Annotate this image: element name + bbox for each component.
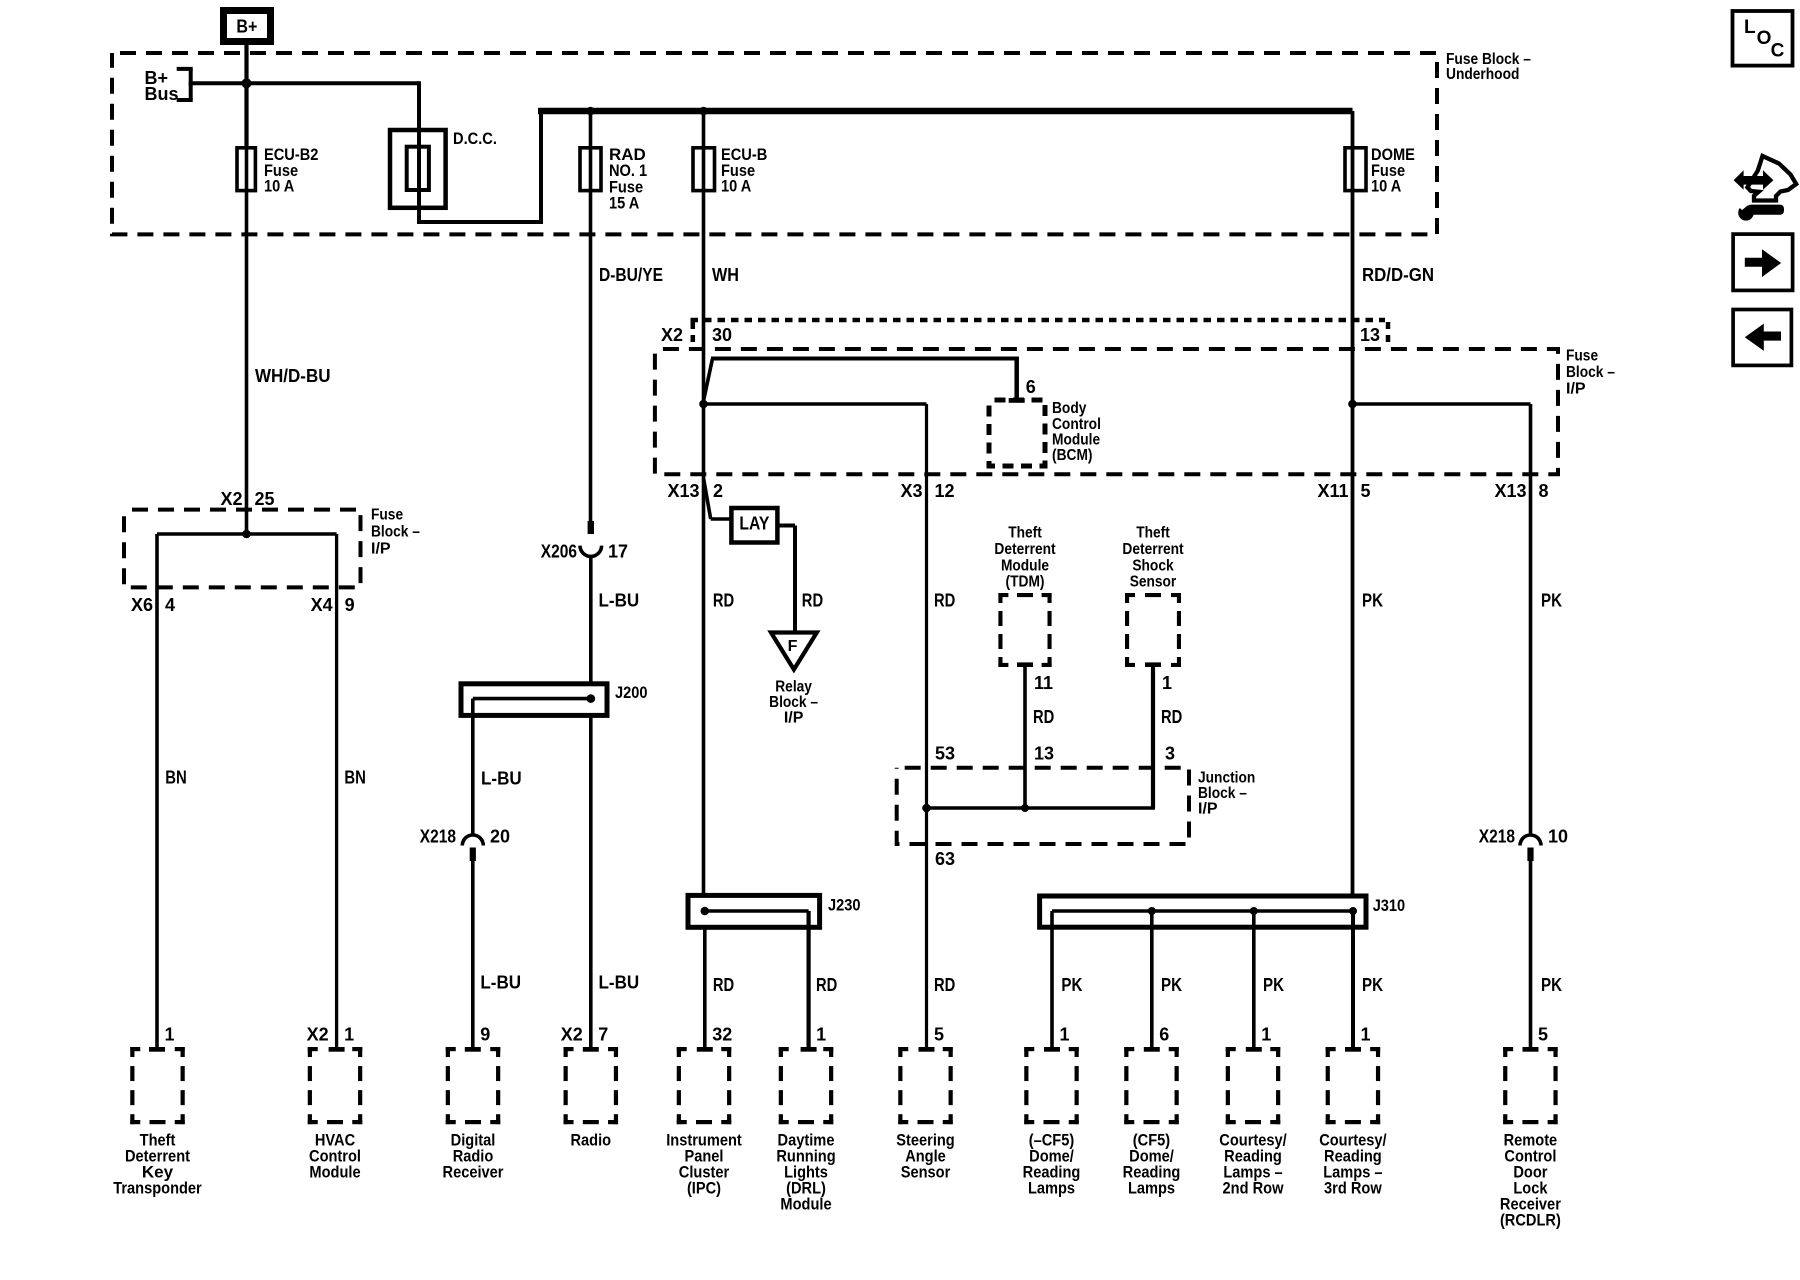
svg-text:Sensor: Sensor: [1130, 574, 1177, 591]
svg-text:7: 7: [598, 1025, 608, 1045]
svg-text:O: O: [1757, 28, 1772, 49]
node: IP block junction right (dome): [1348, 400, 1357, 409]
node: left IP junction: [242, 530, 251, 539]
wire junction block internal: [927, 806, 1156, 810]
svg-text:(TDM): (TDM): [1006, 574, 1045, 591]
inline connector X206 pin 17: [588, 521, 594, 534]
wire J200 to X218: [471, 699, 475, 836]
svg-text:4: 4: [165, 595, 175, 615]
svg-text:RD: RD: [802, 591, 823, 611]
svg-text:12: 12: [935, 481, 955, 501]
wire ECU-B fuse vertical down to J230: [702, 111, 706, 895]
wire J310 to courtesy lamps 2nd row: [1252, 911, 1256, 1048]
svg-text:Body: Body: [1052, 400, 1086, 417]
svg-text:PK: PK: [1263, 975, 1284, 995]
icon: LOC box: [1733, 11, 1793, 66]
svg-text:1: 1: [1060, 1025, 1070, 1045]
svg-text:Transponder: Transponder: [113, 1179, 202, 1198]
svg-text:L: L: [1744, 17, 1756, 38]
connector X2 dotted line: [691, 318, 1386, 323]
svg-text:Control: Control: [1052, 416, 1101, 433]
svg-text:Relay: Relay: [775, 679, 812, 696]
connector courtesy/reading lamps 2nd row: [1226, 1047, 1236, 1051]
svg-text:C: C: [1771, 40, 1785, 61]
svg-text:PK: PK: [1541, 975, 1562, 995]
svg-text:Fuse: Fuse: [1566, 348, 1598, 365]
splice J200 box: [461, 684, 607, 716]
main bus wire (top horizontal): [538, 108, 1353, 115]
svg-text:1: 1: [816, 1025, 826, 1045]
svg-text:RD: RD: [713, 975, 734, 995]
svg-text:J230: J230: [828, 896, 861, 915]
svg-text:RD: RD: [816, 975, 837, 995]
splice J230 box: [688, 895, 820, 927]
svg-text:RD: RD: [1161, 707, 1182, 727]
svg-text:1: 1: [1162, 673, 1172, 693]
svg-text:Shock: Shock: [1132, 557, 1173, 574]
svg-text:I/P: I/P: [1566, 381, 1586, 398]
wire LAY to relay block fuse: [777, 524, 795, 528]
wire B+ bus horizontal to D.C.C.: [189, 81, 419, 85]
svg-text:L-BU: L-BU: [480, 973, 521, 993]
svg-text:17: 17: [608, 542, 628, 562]
svg-text:WH: WH: [712, 265, 739, 285]
connector instrument panel cluster IPC: [677, 1047, 687, 1051]
svg-text:20: 20: [490, 827, 510, 847]
theft deterrent module dashed box: [998, 593, 1008, 597]
wire J200 to radio: [589, 715, 593, 1047]
svg-text:PK: PK: [1061, 975, 1082, 995]
svg-text:I/P: I/P: [1198, 801, 1218, 818]
fuse block - I/P (left) dashed box: [124, 510, 361, 588]
inline connector X218 pin 10: [1520, 835, 1541, 846]
fuse ECU-B 10A: [693, 148, 715, 191]
wire to steering angle sensor (horizontal): [704, 402, 927, 406]
svg-text:10 A: 10 A: [1371, 177, 1401, 196]
svg-text:11: 11: [1034, 673, 1053, 693]
node: junction block TDM: [1021, 804, 1029, 812]
node: J200 junction: [587, 694, 596, 703]
theft deterrent shock sensor dashed box: [1125, 593, 1135, 597]
svg-text:X206: X206: [541, 542, 577, 562]
svg-text:I/P: I/P: [784, 710, 804, 727]
svg-text:X4: X4: [311, 595, 333, 615]
svg-text:X218: X218: [420, 827, 456, 847]
fuse RAD NO.1 15A: [580, 148, 601, 191]
svg-text:BN: BN: [165, 768, 187, 788]
wire branch to BCM pin 6: [704, 359, 713, 402]
svg-text:X6: X6: [131, 595, 153, 615]
wire DOME fuse vertical down to J310: [1351, 111, 1355, 896]
fuse element inside D.C.C.: [407, 147, 429, 190]
connector (-CF5) dome/reading lamps: [1024, 1047, 1034, 1051]
icon: left arrow box: [1733, 310, 1791, 366]
wire IP split horizontal: [157, 532, 337, 536]
svg-text:10 A: 10 A: [264, 177, 294, 196]
connector steering angle sensor: [898, 1047, 908, 1051]
svg-text:WH/D-BU: WH/D-BU: [255, 366, 331, 386]
svg-text:Module: Module: [1052, 431, 1100, 448]
relay LAY box: [731, 508, 777, 543]
wire J310 to (CF5) dome lamps: [1150, 911, 1154, 1048]
connector HVAC control module: [308, 1047, 318, 1051]
svg-text:X3: X3: [900, 481, 922, 501]
svg-text:Theft: Theft: [1136, 525, 1170, 542]
svg-text:Deterrent: Deterrent: [994, 541, 1056, 558]
svg-text:Lamps: Lamps: [1128, 1179, 1175, 1198]
wire B+ vertical into fuse ECU-B2: [245, 41, 249, 534]
svg-text:Module: Module: [780, 1195, 831, 1214]
splice J310 box: [1040, 896, 1366, 927]
svg-text:32: 32: [712, 1025, 732, 1045]
svg-text:5: 5: [1538, 1025, 1548, 1045]
svg-text:10: 10: [1548, 827, 1568, 847]
wire X218 to digital radio receiver: [471, 861, 475, 1048]
fuse block - underhood dashed box: [112, 53, 1437, 234]
wire RAD fuse vertical: [589, 111, 593, 521]
svg-text:X218: X218: [1479, 827, 1515, 847]
svg-text:L-BU: L-BU: [599, 973, 640, 993]
svg-text:PK: PK: [1161, 975, 1182, 995]
node: bus-ECU-B junction: [699, 107, 708, 116]
connector digital radio receiver: [446, 1047, 456, 1051]
svg-text:PK: PK: [1541, 591, 1562, 611]
svg-text:5: 5: [934, 1025, 944, 1045]
node: B+ bus junction: [242, 78, 252, 88]
svg-text:25: 25: [255, 489, 275, 509]
svg-text:Deterrent: Deterrent: [1122, 541, 1184, 558]
svg-text:15 A: 15 A: [609, 194, 639, 213]
svg-text:2: 2: [713, 481, 723, 501]
svg-text:B+: B+: [236, 16, 257, 36]
svg-text:1: 1: [1261, 1025, 1271, 1045]
connector theft deterrent key transponder: [130, 1047, 140, 1051]
svg-text:X2: X2: [661, 325, 683, 345]
svg-text:J310: J310: [1373, 896, 1406, 915]
wire J310 internal: [1052, 909, 1353, 913]
svg-text:Receiver: Receiver: [443, 1163, 504, 1182]
wire TDM pin 11 down: [1023, 667, 1027, 808]
svg-text:9: 9: [345, 595, 355, 615]
wire to RCDLR (horizontal): [1353, 402, 1531, 406]
wire J310 to courtesy lamps 3rd row: [1351, 911, 1355, 1048]
wire RCDLR vertical upper: [1529, 404, 1533, 836]
svg-text:(IPC): (IPC): [687, 1179, 721, 1198]
svg-text:2nd Row: 2nd Row: [1223, 1179, 1285, 1198]
node: bus-RAD junction: [586, 107, 595, 116]
svg-text:53: 53: [935, 744, 955, 764]
svg-text:13: 13: [1034, 744, 1054, 764]
B+ Bus tap bracket: [189, 69, 193, 100]
connector (CF5) dome/reading lamps: [1124, 1047, 1134, 1051]
svg-text:X2: X2: [220, 489, 242, 509]
wire to theft deterrent key transponder: [155, 534, 159, 1048]
svg-text:PK: PK: [1362, 975, 1383, 995]
connector courtesy/reading lamps 3rd row: [1326, 1047, 1336, 1051]
battery feed B+ box: [224, 11, 271, 42]
wire J230 to IPC: [703, 927, 707, 1047]
svg-text:Block –: Block –: [1566, 364, 1615, 381]
inline connector X218 pin 20: [462, 835, 483, 846]
svg-text:RD: RD: [713, 591, 734, 611]
svg-text:5: 5: [1361, 481, 1371, 501]
svg-text:LAY: LAY: [739, 514, 769, 534]
svg-text:(RCDLR): (RCDLR): [1500, 1211, 1561, 1230]
svg-text:Radio: Radio: [571, 1131, 612, 1150]
svg-text:Module: Module: [309, 1163, 360, 1182]
svg-text:Module: Module: [1001, 557, 1049, 574]
svg-text:PK: PK: [1362, 591, 1383, 611]
svg-text:D-BU/YE: D-BU/YE: [599, 265, 663, 285]
wire branch to LAY: [704, 478, 711, 519]
svg-text:RD: RD: [934, 591, 955, 611]
svg-text:Junction: Junction: [1198, 770, 1255, 787]
node: IP block junction left: [699, 400, 708, 409]
node: junction block left: [922, 804, 931, 813]
svg-text:Lamps: Lamps: [1028, 1179, 1075, 1198]
svg-text:3: 3: [1165, 744, 1175, 764]
svg-text:X11: X11: [1317, 481, 1348, 501]
svg-text:J200: J200: [615, 683, 648, 702]
svg-text:10 A: 10 A: [721, 177, 751, 196]
node: J230 junction: [701, 907, 710, 916]
svg-text:BN: BN: [344, 768, 366, 788]
svg-text:Theft: Theft: [1008, 525, 1042, 542]
svg-text:L-BU: L-BU: [481, 768, 522, 788]
svg-text:1: 1: [344, 1025, 354, 1045]
svg-text:1: 1: [1361, 1025, 1371, 1045]
svg-text:6: 6: [1159, 1025, 1169, 1045]
body control module (BCM) dashed box: [989, 400, 1045, 466]
svg-text:3rd Row: 3rd Row: [1324, 1179, 1382, 1198]
svg-text:RD/D-GN: RD/D-GN: [1362, 265, 1434, 285]
connector radio: [564, 1047, 574, 1051]
svg-text:X13: X13: [1494, 481, 1526, 501]
connector daytime running lights DRL module: [779, 1047, 789, 1051]
svg-text:Underhood: Underhood: [1446, 66, 1519, 83]
node: J310 junctions: [1148, 907, 1156, 915]
fuse block - I/P dashed box: [655, 349, 1558, 474]
wire to HVAC control module: [335, 534, 338, 1048]
svg-text:X13: X13: [667, 481, 699, 501]
wire X206 to J200: [589, 555, 593, 684]
svg-text:9: 9: [480, 1025, 490, 1045]
svg-text:I/P: I/P: [371, 541, 391, 558]
wire D.C.C. drop and return to bus: [417, 81, 421, 222]
svg-text:Bus: Bus: [145, 84, 179, 104]
svg-text:RD: RD: [934, 975, 955, 995]
svg-text:RD: RD: [1033, 707, 1054, 727]
svg-text:D.C.C.: D.C.C.: [453, 129, 497, 148]
svg-text:Fuse: Fuse: [371, 507, 403, 524]
svg-text:63: 63: [935, 849, 955, 869]
icon: double arrow with outline arrow and wrench: [1747, 156, 1796, 201]
svg-text:Block –: Block –: [1198, 785, 1247, 802]
svg-text:L-BU: L-BU: [599, 591, 640, 611]
D.C.C. connector outer box: [390, 130, 446, 208]
connector remote control door lock receiver RCDLR: [1503, 1047, 1513, 1051]
wire J230 to DRL: [806, 911, 810, 1048]
fuse DOME 10A: [1345, 148, 1366, 191]
icon: right arrow box: [1733, 234, 1793, 290]
wire X218 to RCDLR: [1529, 861, 1533, 1048]
wire shock sensor pin 1 down: [1151, 667, 1155, 808]
svg-text:X2: X2: [307, 1025, 329, 1045]
svg-text:30: 30: [712, 325, 732, 345]
fuse ECU-B2 10A: [237, 148, 255, 191]
wire J310 to (-CF5) dome lamps: [1050, 911, 1054, 1048]
svg-text:1: 1: [165, 1025, 175, 1045]
svg-text:X2: X2: [561, 1025, 583, 1045]
svg-text:F: F: [788, 638, 798, 655]
wire J200 internal: [473, 697, 591, 701]
svg-text:13: 13: [1360, 325, 1380, 345]
svg-text:Sensor: Sensor: [901, 1163, 951, 1182]
wire J230 internal: [705, 909, 809, 913]
svg-text:(BCM): (BCM): [1052, 447, 1093, 464]
fuse symbol F triangle: [771, 633, 817, 670]
wire steering angle sensor vertical: [925, 404, 928, 1048]
svg-text:8: 8: [1539, 481, 1549, 501]
svg-text:6: 6: [1026, 377, 1036, 397]
svg-text:Block –: Block –: [769, 694, 818, 711]
svg-text:Block –: Block –: [371, 524, 420, 541]
junction block - I/P dashed box: [897, 768, 1189, 844]
